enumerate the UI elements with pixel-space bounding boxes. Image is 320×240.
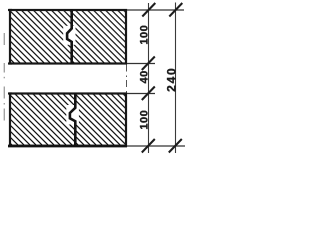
svg-text:40: 40 (138, 70, 150, 83)
svg-text:100: 100 (138, 110, 150, 130)
svg-text:240: 240 (164, 66, 178, 91)
svg-text:100: 100 (138, 25, 150, 45)
